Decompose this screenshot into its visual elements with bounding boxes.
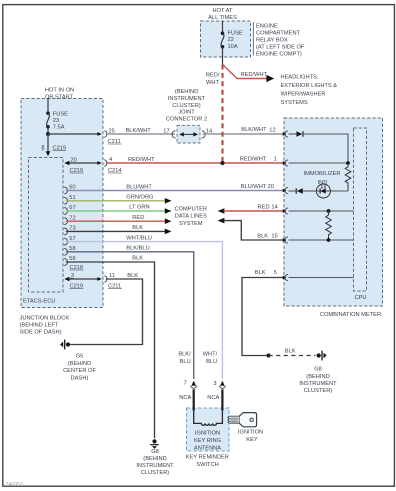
- svg-text:IND: IND: [318, 180, 328, 186]
- joint connector pin 14: [202, 129, 213, 138]
- connector meter pin 14: [283, 208, 288, 214]
- connector key switch pin 3: [219, 381, 226, 389]
- svg-text:3: 3: [213, 381, 216, 387]
- svg-text:RELAY BOX: RELAY BOX: [256, 38, 288, 44]
- svg-text:56: 56: [69, 256, 75, 262]
- wire fuse 22 feed: [222, 21, 224, 33]
- label JUNCTION BLOCK BEHIND LEFT SIDE OF DASH: [20, 315, 70, 335]
- svg-text:RED/WHT: RED/WHT: [128, 157, 155, 163]
- node shared ground junction: [267, 354, 271, 358]
- wire BLK/WHT row 25 to joint connector: [106, 133, 175, 135]
- svg-text:WHT/: WHT/: [203, 352, 218, 358]
- svg-text:73: 73: [69, 226, 75, 232]
- label ENGINE COMPARTMENT RELAY BOX: [256, 24, 305, 58]
- connector meter pin 15: [283, 237, 288, 243]
- svg-text:RED/WHT: RED/WHT: [241, 72, 268, 78]
- svg-text:58: 58: [69, 246, 75, 252]
- svg-text:RED/: RED/: [206, 73, 220, 79]
- wire below fuse 22: [222, 47, 224, 65]
- wire BLK meter pin 5: [242, 278, 283, 356]
- wire BLK meter pin 15: [224, 221, 284, 240]
- wire WHT/BLU row 57: [66, 242, 223, 379]
- svg-text:RED: RED: [132, 215, 144, 221]
- svg-text:DATA LINES: DATA LINES: [175, 214, 207, 220]
- connector pin 51: [64, 197, 67, 204]
- svg-text:G8: G8: [151, 449, 159, 455]
- svg-text:(AT LEFT SIDE OF: (AT LEFT SIDE OF: [256, 45, 305, 51]
- connector C214 pin 4: [97, 157, 122, 174]
- arrow BLK to data lines: [165, 229, 172, 235]
- svg-text:(BEHIND: (BEHIND: [175, 89, 198, 95]
- ignition key icon: [228, 413, 257, 427]
- svg-text:FUSE: FUSE: [53, 112, 68, 118]
- joint connector 2 internal bus: [179, 132, 198, 136]
- svg-text:JUNCTION BLOCK: JUNCTION BLOCK: [20, 315, 70, 321]
- svg-text:CENTER OF: CENTER OF: [63, 368, 96, 374]
- svg-text:NCA: NCA: [207, 395, 219, 401]
- label IGNITION KEY RING ANTENNA: [194, 431, 221, 452]
- combination meter box: [284, 118, 383, 306]
- wire internal row 25: [48, 133, 101, 135]
- svg-text:10A: 10A: [228, 44, 238, 50]
- wire GRN/ORG row 51: [66, 200, 166, 202]
- arrow GRN/ORG to data lines: [165, 198, 172, 204]
- label BEHIND INSTRUMENT CLUSTER JOINT CONNECTOR 2: [166, 89, 207, 122]
- fuse F22: [221, 31, 243, 50]
- wire BLU/WHT row 60 to meter pin 20: [66, 190, 283, 192]
- ground G8 bottom: [150, 439, 159, 449]
- svg-text:(BEHIND: (BEHIND: [143, 456, 166, 462]
- label G8 bottom BEHIND INSTRUMENT CLUSTER: [136, 449, 174, 476]
- connector C211 pin 11: [97, 273, 122, 289]
- node junction on RED/WHT line: [220, 161, 224, 165]
- wire dashed RED/WHT feed down: [221, 65, 223, 164]
- label pin 20 C219: [70, 157, 84, 174]
- svg-text:BLK/WHT: BLK/WHT: [126, 128, 152, 134]
- svg-text:WIPER/WASHER: WIPER/WASHER: [281, 92, 326, 98]
- svg-text:BLU: BLU: [180, 359, 191, 365]
- joint connector pin 17: [163, 128, 175, 138]
- label pin 3 C219: [70, 273, 84, 289]
- wire meter row 12 internal: [289, 133, 297, 135]
- label C218: [70, 265, 84, 271]
- svg-text:14: 14: [271, 205, 277, 211]
- svg-text:INSTRUMENT: INSTRUMENT: [168, 96, 206, 102]
- label pin 8: [41, 145, 66, 152]
- svg-text:(BEHIND LEFT: (BEHIND LEFT: [20, 323, 59, 329]
- svg-text:BLK: BLK: [132, 256, 143, 262]
- wire RED row 72: [66, 220, 166, 222]
- svg-text:SYSTEMS: SYSTEMS: [281, 100, 308, 106]
- CPU inner box: [354, 128, 367, 291]
- label BLK/BLU vertical: [178, 352, 191, 365]
- svg-text:IGNITION: IGNITION: [195, 431, 220, 437]
- resistor R1 immobilizer: [345, 163, 351, 191]
- arrow to headlights systems: [266, 75, 274, 82]
- svg-text:GRN/ORG: GRN/ORG: [126, 195, 153, 201]
- wire BLK row 73: [66, 230, 166, 232]
- svg-text:IMMOBILIZER: IMMOBILIZER: [304, 171, 341, 177]
- wire down to ETACS pin 8: [47, 134, 49, 152]
- connector pin 58: [64, 248, 67, 255]
- wire meter row 14 internal: [289, 210, 354, 212]
- svg-text:ANTENNA: ANTENNA: [194, 446, 221, 452]
- node row15: [327, 238, 331, 242]
- svg-text:RED: RED: [258, 205, 270, 211]
- engine compartment relay box B1: [201, 21, 251, 57]
- ground G8 right: [317, 351, 327, 361]
- arrow RED from meter pin 14: [218, 208, 225, 214]
- label G5 BEHIND CENTER OF DASH: [63, 354, 96, 382]
- node branch: [46, 132, 50, 136]
- wire LT GRN row 67: [66, 210, 166, 212]
- svg-text:JOINT: JOINT: [178, 110, 195, 116]
- svg-text:11: 11: [109, 273, 115, 279]
- svg-text:G8: G8: [314, 367, 322, 373]
- wire RED/WHT ETACS pin20 link inside junction block: [66, 162, 101, 164]
- svg-text:BLU: BLU: [206, 359, 217, 365]
- label HEADLIGHTS EXTERIOR LIGHTS: [281, 75, 338, 107]
- svg-text:KEY RING: KEY RING: [194, 438, 221, 444]
- connector pin 60: [64, 187, 67, 194]
- wire LED to diode D2: [303, 190, 317, 192]
- svg-text:KEY REMINDER: KEY REMINDER: [186, 455, 229, 461]
- svg-text:WHT: WHT: [206, 80, 219, 86]
- svg-text:FUSE: FUSE: [228, 31, 243, 37]
- svg-text:22: 22: [228, 37, 234, 43]
- svg-text:57: 57: [69, 236, 75, 242]
- svg-text:INSTRUMENT: INSTRUMENT: [136, 463, 174, 469]
- connector pin 56: [64, 259, 67, 266]
- wire key switch lead 7: [193, 389, 195, 410]
- pin 20 arrow into ETACS-ECU: [64, 161, 69, 165]
- svg-text:RED/WHT: RED/WHT: [240, 157, 267, 163]
- svg-text:23: 23: [53, 118, 59, 124]
- svg-text:COMPUTER: COMPUTER: [175, 207, 208, 213]
- label HOT IN ON OR START: [45, 88, 74, 101]
- label IMMOBILIZER IND: [304, 171, 341, 186]
- svg-text:HOT AT: HOT AT: [212, 8, 233, 14]
- wire BLK/WHT to meter pin 12: [203, 133, 284, 135]
- svg-text:7: 7: [184, 381, 187, 387]
- svg-text:DASH): DASH): [71, 375, 89, 381]
- svg-text:BLK: BLK: [255, 270, 266, 276]
- wire row 3 inside junction block: [66, 278, 101, 280]
- svg-text:(BEHIND: (BEHIND: [68, 361, 91, 367]
- wire dashed BLK to ground G8 right: [269, 355, 316, 357]
- arrow BLK from meter pin 15: [218, 218, 225, 224]
- svg-text:INSTRUMENT: INSTRUMENT: [299, 381, 337, 387]
- wire key switch lead 3: [221, 389, 223, 410]
- connector C211 pin 25: [97, 128, 121, 145]
- label KEY REMINDER SWITCH: [186, 455, 229, 469]
- svg-text:WHT/BLU: WHT/BLU: [126, 235, 152, 241]
- resistor R2: [326, 211, 332, 240]
- svg-text:51: 51: [69, 195, 75, 201]
- svg-text:BLU/WHT: BLU/WHT: [241, 184, 267, 190]
- svg-text:72: 72: [69, 215, 75, 221]
- label RED/ WHT vertical feed: [206, 73, 220, 87]
- arrow RED to data lines: [165, 218, 172, 224]
- svg-text:67: 67: [69, 205, 75, 211]
- label IGNITION KEY: [238, 430, 263, 443]
- LED immobilizer indicator: [316, 184, 330, 198]
- svg-text:20: 20: [71, 157, 77, 163]
- svg-text:ALL TIMES: ALL TIMES: [208, 15, 237, 21]
- label G8 right BEHIND INSTRUMENT CLUSTER: [299, 367, 337, 395]
- svg-text:7.5A: 7.5A: [53, 125, 65, 131]
- wire D2 to pin 20: [289, 190, 297, 192]
- svg-text:ETACS-ECU: ETACS-ECU: [23, 299, 55, 305]
- wire from D1 to corner: [303, 134, 348, 163]
- svg-text:CONNECTOR 2: CONNECTOR 2: [166, 116, 207, 122]
- wire meter row 1 internal: [289, 162, 349, 164]
- diode D1 row 12: [296, 131, 303, 137]
- svg-text:246953: 246953: [6, 482, 23, 488]
- svg-text:EXTERIOR LIGHTS &: EXTERIOR LIGHTS &: [281, 83, 338, 89]
- fuse F23: [46, 111, 68, 130]
- wire BLK/BLU row 58: [66, 252, 194, 379]
- connector pin 57: [64, 238, 67, 245]
- svg-text:OR START: OR START: [45, 94, 74, 100]
- connector key switch pin 7: [190, 381, 197, 389]
- svg-text:LT GRN: LT GRN: [129, 205, 149, 211]
- svg-text:(BEHIND: (BEHIND: [306, 374, 329, 380]
- wire meter row 15 internal: [289, 239, 354, 241]
- svg-text:BLK: BLK: [285, 349, 296, 355]
- svg-text:15: 15: [271, 234, 277, 240]
- label WHT/BLU vertical: [203, 352, 218, 365]
- svg-text:SIDE OF DASH): SIDE OF DASH): [20, 330, 62, 336]
- svg-text:KEY: KEY: [246, 437, 258, 443]
- connector pin 72: [64, 218, 67, 225]
- svg-text:BLK/: BLK/: [178, 352, 191, 358]
- connector pin 67: [64, 208, 67, 215]
- svg-text:BLK: BLK: [127, 273, 138, 279]
- joint connector 2 box: [177, 125, 200, 143]
- svg-text:60: 60: [69, 185, 75, 191]
- coil ignition key ring antenna L1: [194, 410, 223, 425]
- wire fuse to branch node: [47, 127, 49, 134]
- svg-text:BLK/WHT: BLK/WHT: [241, 127, 267, 133]
- svg-text:BLK: BLK: [132, 225, 143, 231]
- svg-text:IGNITION: IGNITION: [238, 430, 263, 436]
- connector pin 73: [64, 228, 67, 235]
- connector meter pin 20: [283, 187, 288, 193]
- wire branch RED/WHT to headlights: [223, 65, 267, 79]
- svg-text:CLUSTER): CLUSTER): [304, 388, 333, 394]
- pin 8 arrow into ETACS-ECU: [46, 151, 51, 156]
- junction block box: [21, 99, 103, 308]
- ground G5: [60, 340, 70, 350]
- wire RED meter pin 14: [224, 210, 284, 212]
- svg-text:BLK/BLU: BLK/BLU: [126, 246, 149, 252]
- node row1 junction: [346, 161, 350, 165]
- pin 3 arrow into ETACS-ECU: [64, 277, 69, 281]
- diode D2 row 20: [296, 188, 303, 194]
- connector meter pin 12: [283, 131, 288, 137]
- svg-text:12: 12: [269, 128, 275, 134]
- wire meter row 5 internal: [289, 277, 354, 279]
- label HOT AT ALL TIMES: [208, 8, 237, 21]
- svg-text:COMPARTMENT: COMPARTMENT: [256, 31, 301, 37]
- svg-text:CLUSTER): CLUSTER): [172, 103, 201, 109]
- svg-text:SYSTEM: SYSTEM: [179, 221, 203, 227]
- svg-text:HEADLIGHTS,: HEADLIGHTS,: [281, 75, 319, 81]
- wire BLK row 11 to ground G5: [70, 279, 143, 345]
- svg-text:ENGINE COMPT): ENGINE COMPT): [256, 52, 302, 58]
- wire fuse 23 feed: [47, 99, 49, 113]
- svg-text:BLK: BLK: [257, 234, 268, 240]
- svg-text:17: 17: [163, 128, 169, 134]
- connector meter pin 1: [283, 160, 288, 166]
- svg-text:5: 5: [274, 270, 277, 276]
- label bracket engine compartment relay box: [252, 22, 254, 56]
- wire RED/WHT row to meter pin 1: [106, 162, 283, 164]
- svg-text:NCA: NCA: [179, 395, 191, 401]
- wire resistor to LED: [330, 190, 348, 192]
- label COMPUTER DATA LINES SYSTEM: [175, 207, 208, 227]
- key reminder switch box: [187, 408, 230, 451]
- wire BLK row 56 to ground G8: [66, 262, 155, 438]
- svg-text:1: 1: [274, 157, 277, 163]
- svg-text:BLU/WHT: BLU/WHT: [126, 184, 152, 190]
- ETACS-ECU inner box: [29, 158, 64, 293]
- svg-text:CPU: CPU: [354, 295, 366, 301]
- connector meter pin 5: [283, 274, 288, 280]
- svg-text:CLUSTER): CLUSTER): [141, 470, 170, 476]
- svg-text:COMBINATION METER: COMBINATION METER: [320, 312, 381, 318]
- svg-text:SWITCH: SWITCH: [196, 462, 218, 468]
- svg-text:ENGINE: ENGINE: [256, 24, 278, 30]
- node row14: [327, 209, 331, 213]
- svg-text:G5: G5: [76, 354, 84, 360]
- arrow LT GRN to data lines: [165, 208, 172, 214]
- svg-text:20: 20: [268, 184, 274, 190]
- svg-text:HOT IN ON: HOT IN ON: [45, 88, 74, 94]
